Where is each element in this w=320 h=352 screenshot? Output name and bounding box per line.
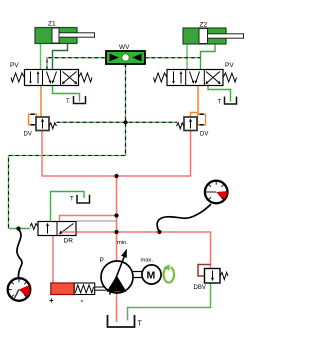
- electric motor M: [133, 265, 161, 284]
- wire DBV drain to tank: [128, 283, 211, 321]
- pilot line Z2 to WV (dashed): [145, 57, 201, 59]
- svg-text:T: T: [70, 197, 74, 203]
- junction node WV pilot cross: [123, 120, 127, 124]
- pilot line to DV springs (dashed horizontal): [57, 121, 178, 123]
- pilot line WV output down and left rail to DR (dashed): [9, 64, 126, 229]
- wire DR outlet to DBV branch: [76, 232, 211, 269]
- pressure gauge right: [205, 181, 228, 204]
- junction node DR outlet branch: [114, 230, 118, 234]
- valve PV right (4/3 directional): [154, 62, 237, 86]
- junction node gauge branch: [157, 230, 161, 234]
- wire DR tank line: [51, 192, 85, 222]
- control cylinder of variable pump: [49, 283, 110, 305]
- wire PV-right P port orange: [191, 86, 199, 118]
- svg-text:DBV: DBV: [194, 285, 206, 291]
- svg-text:WV: WV: [119, 44, 130, 51]
- svg-text:+: +: [49, 296, 54, 305]
- junction node DR top branch: [114, 213, 118, 217]
- main tank T: [108, 315, 143, 328]
- valve PV left (4/3 directional): [10, 62, 92, 86]
- tank T under PV right: [218, 97, 237, 106]
- rotation direction arrow: [163, 264, 174, 282]
- pilot line Z1 to WV (dashed): [47, 58, 106, 70]
- tank T at DR: [70, 195, 90, 203]
- svg-text:T: T: [66, 99, 70, 105]
- wire Z2 cap-side to PV-A: [186, 44, 188, 70]
- svg-text:Z1: Z1: [48, 21, 56, 28]
- wire DV-left outlet red to manifold: [42, 131, 191, 177]
- svg-text:min.: min.: [117, 240, 128, 246]
- svg-text:DV: DV: [24, 132, 32, 138]
- wire DR top port to pressure line: [60, 216, 117, 222]
- wire Z2 rod-side to PV-B: [201, 44, 216, 70]
- pressure gauge left: [8, 276, 31, 301]
- shuttle valve WV: [106, 44, 145, 67]
- pilot sense line DR (grey): [76, 220, 117, 222]
- svg-text:PV: PV: [225, 62, 234, 69]
- wire pilot rail to DR spring: [9, 228, 31, 230]
- hose to right gauge: [157, 204, 211, 232]
- junction node DR pilot / gauge: [16, 226, 20, 230]
- svg-text:DV: DV: [200, 132, 208, 138]
- wire PV-left P port orange: [40, 86, 42, 118]
- svg-text:T: T: [218, 100, 222, 106]
- wire pump suction to tank: [116, 291, 118, 322]
- throttle check valve DV left: [24, 114, 57, 137]
- throttle check valve DV right: [177, 114, 209, 137]
- wire Z1 cap-side to PV-A: [40, 44, 42, 70]
- junction node manifold / pump line: [114, 174, 118, 178]
- hose to left gauge: [17, 230, 22, 278]
- wire PV-left T port to tank: [53, 86, 80, 102]
- wire PV-right T port to tank: [208, 86, 231, 102]
- pressure reducing valve DR: [30, 222, 76, 245]
- svg-text:max.: max.: [141, 258, 154, 264]
- cylinder Z1: [35, 21, 95, 44]
- svg-text:-: -: [81, 296, 84, 305]
- wire DR bottom port to control cylinder: [52, 236, 54, 284]
- pressure relief valve DBV: [194, 265, 229, 292]
- svg-text:DR: DR: [64, 238, 74, 245]
- svg-text:Z2: Z2: [200, 22, 208, 29]
- svg-text:PV: PV: [10, 62, 19, 69]
- variable displacement pump P: [100, 240, 154, 295]
- cylinder Z2: [183, 22, 244, 45]
- svg-text:M: M: [147, 270, 156, 282]
- svg-text:T: T: [138, 321, 143, 328]
- tank T under PV left: [66, 96, 86, 105]
- wire pump pressure line: [116, 176, 118, 262]
- svg-text:P: P: [100, 257, 104, 264]
- wire Z1 rod-side to PV-B: [53, 44, 68, 70]
